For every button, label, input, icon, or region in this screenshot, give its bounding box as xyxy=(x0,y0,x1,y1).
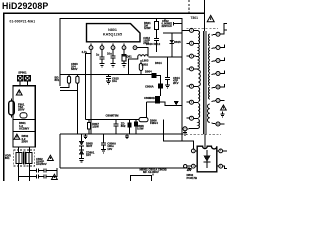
warning triangle lower right xyxy=(52,174,58,179)
op IC N801 KA5Q1265 outline xyxy=(87,24,141,42)
wire pin4 xyxy=(123,44,125,55)
svg-text:473M: 473M xyxy=(112,114,120,118)
svg-text:2KV: 2KV xyxy=(143,41,149,45)
wire local ground bus xyxy=(60,73,151,75)
wire pin1 to local bus xyxy=(86,44,92,135)
svg-text:1/2W: 1/2W xyxy=(92,124,99,128)
pin 4 of N801 xyxy=(122,46,126,50)
pin 1 of N801 xyxy=(89,46,93,50)
transformer pin 7 xyxy=(187,117,190,119)
transformer T801 core xyxy=(203,31,207,134)
transformer sec pin 14 xyxy=(216,99,220,103)
diode D812 pin4 xyxy=(122,55,126,62)
line filter core xyxy=(24,152,26,165)
optocoupler pin top-right xyxy=(219,149,223,153)
capacitor C806B block xyxy=(155,96,160,101)
svg-text:ACDMY: ACDMY xyxy=(19,127,29,131)
zener ZD801 xyxy=(79,150,84,154)
svg-text:1/2W: 1/2W xyxy=(144,26,151,30)
warning triangle C802 xyxy=(48,155,54,160)
optocoupler N802 box xyxy=(197,146,217,172)
rail mid xyxy=(86,119,140,121)
diode D805 xyxy=(81,134,83,141)
wire HV drop to transformer xyxy=(181,19,183,141)
capacitor C809A xyxy=(103,134,105,143)
wire pin2 xyxy=(101,44,103,57)
capacitor C810 pin2 xyxy=(100,57,105,59)
pin 2 of N801 xyxy=(100,46,104,50)
capacitor C803B xyxy=(19,176,37,178)
svg-text:D815: D815 xyxy=(174,40,181,44)
line filter LF801 dashed box xyxy=(14,150,35,166)
svg-text:250V: 250V xyxy=(22,139,29,143)
wire to opto LED xyxy=(164,120,194,149)
posistor R801 xyxy=(20,113,27,118)
board outline 01-000P21-MA1 xyxy=(4,13,204,181)
transformer sec pin 10 xyxy=(216,46,220,50)
svg-text:AC250V: AC250V xyxy=(36,162,47,166)
capacitor C803 capsule A xyxy=(67,76,70,83)
bus2 cold rail xyxy=(60,167,190,169)
capacitor D804 block xyxy=(151,73,156,78)
diode D807 xyxy=(135,120,137,122)
capacitor C809 xyxy=(115,120,117,124)
capacitor C815 on bus xyxy=(108,74,110,76)
resistor R807 xyxy=(88,120,90,123)
ground on bus1 at 88 xyxy=(83,134,87,139)
capacitor C816 xyxy=(129,120,131,123)
svg-text:10u: 10u xyxy=(107,52,112,56)
ground sec xyxy=(220,112,224,117)
dashed transformer box top xyxy=(187,28,219,30)
wire aux line xyxy=(147,102,183,106)
capacitor C804 capsule B xyxy=(76,76,79,83)
diode D806 xyxy=(174,101,180,106)
transformer pin 8 xyxy=(183,127,187,131)
svg-text:2KV: 2KV xyxy=(173,81,179,85)
wire core to opto xyxy=(204,134,206,148)
svg-text:FMG4: FMG4 xyxy=(150,121,158,125)
transformer pin 5 xyxy=(187,85,190,87)
svg-text:220VAC: 220VAC xyxy=(162,24,172,28)
spark gap SP801 xyxy=(17,75,31,82)
terminal circle xyxy=(184,165,187,168)
note box xyxy=(130,176,151,181)
svg-text:10V: 10V xyxy=(86,153,91,157)
transformer sec pin 9 xyxy=(216,32,220,36)
svg-text:250V: 250V xyxy=(18,108,25,112)
resistor R808 xyxy=(146,102,148,118)
dashed hot/cold boundary top xyxy=(188,0,190,13)
ground ZD801 xyxy=(79,159,84,163)
svg-text:802: 802 xyxy=(121,124,126,128)
resistor R806 block xyxy=(155,100,160,104)
ground pin2 xyxy=(100,64,105,68)
svg-text:MF A2-800V: MF A2-800V xyxy=(143,170,159,174)
fuse F801 xyxy=(9,101,15,115)
svg-text:SP801: SP801 xyxy=(18,70,27,74)
wire square chain xyxy=(157,76,161,102)
capacitor C806A block xyxy=(158,83,163,88)
ground pin4 xyxy=(122,64,127,68)
warning triangle in box xyxy=(16,90,22,95)
chassis ground opto xyxy=(187,169,192,172)
ground transformer pin 8 xyxy=(183,131,187,136)
svg-text:801: 801 xyxy=(5,156,10,160)
capacitor C811 pin3 xyxy=(111,56,116,58)
transformer sec pin 15 xyxy=(216,122,220,126)
resistor R821 xyxy=(156,19,158,22)
svg-text:630V: 630V xyxy=(71,67,78,71)
wire snubber xyxy=(149,56,182,58)
dashed transformer box bottom xyxy=(186,134,221,136)
transformer sec pin 11 xyxy=(216,59,220,63)
svg-text:L803: L803 xyxy=(142,59,149,63)
AC input box xyxy=(13,86,35,147)
wire +B from top xyxy=(204,0,206,31)
transformer pin 3 xyxy=(187,55,190,57)
inductor L802 xyxy=(129,55,149,75)
capacitor C814 xyxy=(167,57,169,77)
wires filter down xyxy=(19,164,30,182)
svg-text:01-000P21-MA1: 01-000P21-MA1 xyxy=(10,19,36,23)
svg-text:1u: 1u xyxy=(96,53,100,57)
optocoupler pin bottom-right xyxy=(219,164,223,168)
pin 3 of N801 xyxy=(111,46,115,50)
svg-text:4.7u: 4.7u xyxy=(82,50,88,54)
svg-text:T801: T801 xyxy=(191,16,199,20)
wires box to line filter xyxy=(19,147,30,152)
svg-text:D814: D814 xyxy=(155,61,162,65)
transformer sec pin 12 xyxy=(216,72,220,76)
optocoupler LED symbol xyxy=(204,156,211,163)
warning triangle T801 xyxy=(207,15,214,21)
svg-text:C810: C810 xyxy=(149,96,156,100)
optocoupler pin top-left xyxy=(191,149,195,153)
wire SP801 leads xyxy=(20,81,27,85)
capacitor C812 xyxy=(171,22,174,26)
transformer pin 6 xyxy=(187,101,190,103)
transformer secondary winding xyxy=(208,34,210,122)
capacitor C813 xyxy=(154,38,159,40)
wire pin5 to L802 xyxy=(137,48,148,57)
transformer pin 2 xyxy=(187,42,190,44)
wire pin3 xyxy=(112,44,114,56)
ground C809A xyxy=(101,149,106,153)
svg-text:10V: 10V xyxy=(107,147,112,151)
optocoupler pin bottom-left xyxy=(191,164,195,168)
wire note tick xyxy=(152,173,154,175)
transformer sec pin 13 xyxy=(216,85,220,89)
ground on bus1 at 127 xyxy=(125,134,129,139)
svg-text:D804: D804 xyxy=(145,70,152,74)
warning triangle lower xyxy=(14,134,20,139)
svg-text:C806A: C806A xyxy=(145,85,154,89)
svg-text:10u: 10u xyxy=(112,79,117,83)
transformer primary winding xyxy=(198,31,200,128)
transformer pin 4 xyxy=(187,68,190,70)
transformer pin 1 xyxy=(182,29,190,31)
svg-text:D81: D81 xyxy=(127,55,133,59)
warning triangle sec xyxy=(221,105,227,110)
line filter windings xyxy=(16,152,22,163)
capacitor C802 xyxy=(30,170,36,172)
svg-text:PC817B: PC817B xyxy=(187,176,198,180)
svg-text:0.5W: 0.5W xyxy=(137,127,144,131)
svg-text:4007: 4007 xyxy=(86,144,93,148)
pin 5 of N801 xyxy=(133,46,137,50)
bus1 hot ground rail xyxy=(60,133,183,135)
svg-text:HiD29208P: HiD29208P xyxy=(2,1,48,11)
wire main HV rail xyxy=(60,19,182,86)
ground pin3 xyxy=(111,64,116,68)
svg-text:801: 801 xyxy=(55,78,60,82)
svg-text:KA5Q1265: KA5Q1265 xyxy=(103,32,122,36)
